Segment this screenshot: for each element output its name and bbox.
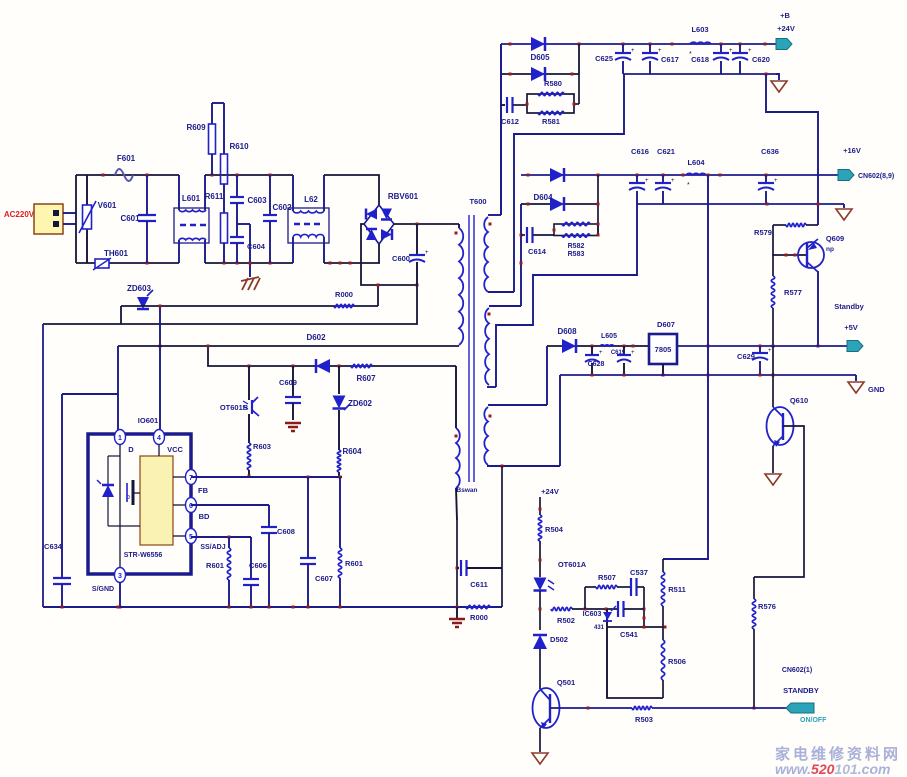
wire S3 bottom riser	[559, 375, 561, 466]
resistor R582	[562, 222, 590, 250]
connector CN602 +16V	[838, 146, 894, 181]
label D604	[533, 193, 553, 202]
svg-text:D604: D604	[533, 193, 553, 202]
label STR-W6556	[124, 552, 163, 559]
svg-text:TH601: TH601	[104, 249, 129, 258]
svg-text:C601: C601	[120, 214, 140, 223]
wire R504 column	[539, 497, 542, 515]
inductor L604	[686, 158, 706, 189]
wire C537 right	[637, 587, 646, 627]
svg-text:R511: R511	[668, 585, 686, 594]
transformer aux winding	[455, 366, 460, 520]
svg-text:C537: C537	[630, 568, 648, 577]
svg-text:R582: R582	[568, 243, 585, 250]
label VCC	[167, 445, 183, 454]
svg-text:+: +	[774, 178, 778, 184]
ground symbol Q610	[765, 474, 781, 485]
bridge rectifier RBV601	[364, 192, 419, 244]
wire +16V rail	[521, 174, 840, 177]
snubber box R582 R583	[553, 223, 600, 237]
svg-text:C625: C625	[595, 54, 613, 63]
IC601 inner zener loop	[108, 456, 140, 526]
capacitor C621	[655, 147, 675, 204]
fuse F601	[115, 154, 136, 181]
resistor R504	[538, 515, 563, 577]
capacitor C607	[300, 477, 333, 607]
label SS/ADJ	[200, 544, 225, 551]
capacitor C606	[243, 537, 267, 607]
svg-text:+: +	[748, 48, 752, 54]
svg-text:C541: C541	[620, 630, 638, 639]
wire snubber rail	[207, 345, 457, 368]
wire S2 bottom return	[496, 204, 637, 387]
svg-text:RBV601: RBV601	[388, 192, 419, 201]
svg-text:+5V: +5V	[844, 323, 858, 332]
svg-text:C603: C603	[247, 196, 267, 205]
wire pin3 to rail	[119, 582, 122, 609]
zener ZD602	[333, 366, 373, 410]
svg-text:AC220V: AC220V	[4, 210, 35, 219]
capacitor C617	[642, 44, 679, 74]
transformer secondary S1	[484, 215, 514, 292]
transformer T600 label	[469, 197, 486, 206]
svg-text:GND: GND	[868, 385, 885, 394]
wire SS	[191, 536, 251, 539]
varistor V601	[79, 175, 117, 263]
svg-text:L601: L601	[182, 194, 201, 203]
pin 7	[173, 470, 197, 485]
label D602	[306, 333, 326, 342]
pin 3	[115, 568, 126, 583]
IC601 box	[88, 434, 191, 574]
svg-text:C600: C600	[392, 254, 410, 263]
svg-text:BD: BD	[199, 512, 210, 521]
wire primary return	[43, 285, 417, 324]
svg-text:CN602(1): CN602(1)	[782, 667, 812, 674]
resistor R507	[596, 573, 617, 589]
wire Q610 emitter	[772, 446, 774, 473]
svg-text:R504: R504	[545, 525, 564, 534]
svg-text:C617: C617	[661, 55, 679, 64]
diode D605 a	[531, 37, 545, 51]
svg-text:1: 1	[118, 435, 122, 442]
resistor R604	[337, 410, 362, 476]
svg-text:R601: R601	[206, 561, 224, 570]
label D605	[530, 53, 550, 62]
svg-text:7805: 7805	[655, 345, 672, 354]
wire to bridge top	[324, 175, 379, 205]
watermark line2	[775, 761, 890, 777]
svg-text:R610: R610	[229, 142, 249, 151]
wire top rail +B	[501, 43, 779, 46]
wire AC left vertical	[75, 175, 77, 263]
connector AC socket	[34, 204, 76, 234]
watermark line1	[775, 745, 901, 763]
inductor L605	[600, 333, 617, 346]
capacitor C601	[120, 175, 156, 263]
wire bridge bottom stub	[378, 244, 380, 263]
optocoupler OT601A	[534, 560, 587, 591]
resistor R580	[538, 79, 564, 96]
connector +5V	[847, 341, 863, 352]
svg-text:C607: C607	[315, 574, 333, 583]
ground symbol GND	[848, 375, 885, 394]
transistor Q609	[798, 234, 844, 272]
svg-text:431: 431	[594, 625, 605, 631]
svg-text:V601: V601	[98, 201, 117, 210]
choke L601	[174, 175, 209, 263]
thermistor TH601	[93, 249, 129, 270]
resistor R506	[661, 627, 686, 698]
IC601 inner zener	[97, 480, 114, 497]
capacitor C634	[44, 394, 71, 607]
label STANDBY	[783, 686, 819, 695]
resistor R577	[771, 255, 802, 348]
svg-text:+24V: +24V	[541, 487, 559, 496]
transistor Q610	[767, 396, 809, 447]
svg-text:C611: C611	[470, 580, 488, 589]
capacitor C611	[457, 560, 502, 589]
label FB	[198, 486, 209, 495]
svg-text:IC603: IC603	[583, 611, 602, 618]
ground symbol +24V	[771, 74, 787, 92]
svg-text:C621: C621	[657, 147, 675, 156]
svg-text:D605: D605	[530, 53, 550, 62]
svg-text:ON/OFF: ON/OFF	[800, 717, 827, 724]
wire R511 feed	[663, 175, 708, 559]
label CN602(1)	[782, 667, 812, 674]
svg-text:R580: R580	[544, 79, 562, 88]
svg-text:D602: D602	[306, 333, 326, 342]
power ground bottom rail	[449, 607, 465, 627]
label +5V	[844, 323, 858, 332]
capacitor C603	[230, 175, 267, 224]
optocoupler OT601B	[220, 366, 259, 443]
wire FB	[191, 476, 342, 479]
wire 16V return rail	[637, 203, 844, 206]
svg-text:R604: R604	[342, 447, 362, 456]
svg-text:b: b	[126, 494, 130, 501]
capacitor C602	[263, 175, 292, 263]
svg-text:L603: L603	[691, 25, 708, 34]
svg-text:R609: R609	[186, 123, 206, 132]
resistor R581	[538, 111, 564, 126]
wire OT601A to R502	[539, 591, 542, 630]
svg-text:www.520101.com: www.520101.com	[775, 761, 890, 777]
resistor R576	[752, 577, 776, 710]
svg-text:FB: FB	[198, 486, 209, 495]
diode D604 a	[550, 168, 564, 182]
IC601 chip STR-W6556	[140, 456, 173, 545]
wire 7805 gnd stem	[662, 364, 665, 377]
svg-text:Q501: Q501	[557, 678, 575, 687]
svg-text:4: 4	[157, 435, 161, 442]
svg-text:*: *	[687, 182, 690, 189]
chassis ground	[241, 277, 260, 290]
svg-text:Q610: Q610	[790, 396, 808, 405]
svg-text:IO601: IO601	[138, 416, 158, 425]
resistor R601	[338, 477, 363, 607]
pin 1	[115, 430, 126, 445]
svg-text:C609: C609	[279, 378, 297, 387]
svg-text:VCC: VCC	[167, 445, 183, 454]
capacitor C610	[392, 224, 429, 285]
wire D604 lower	[521, 175, 600, 235]
svg-text:R581: R581	[542, 117, 560, 126]
wire S2 top riser	[520, 204, 523, 306]
snubber box R580 R581	[526, 74, 580, 113]
label aux winding	[457, 487, 478, 494]
label pin D	[128, 445, 134, 454]
transformer secondary S3	[484, 405, 560, 468]
capacitor C614	[521, 227, 554, 256]
svg-text:R507: R507	[598, 573, 616, 582]
resistor R607	[351, 364, 376, 383]
wire S1 top riser	[500, 44, 502, 215]
wire VCC drop pin4	[159, 305, 162, 430]
svg-text:np: np	[826, 246, 834, 253]
svg-text:R000: R000	[335, 290, 353, 299]
wire IC603 output	[607, 626, 667, 629]
capacitor C625	[595, 44, 635, 74]
svg-text:+B: +B	[780, 11, 790, 20]
resistor R609	[186, 103, 215, 175]
pin 4	[154, 430, 165, 445]
wire to bridge bottom	[324, 262, 380, 265]
svg-text:C616: C616	[631, 147, 649, 156]
svg-text:D502: D502	[550, 635, 568, 644]
transformer secondary S2	[485, 306, 521, 387]
svg-text:D: D	[128, 445, 134, 454]
wire AC bottom	[76, 262, 179, 265]
wire C611 right riser	[501, 466, 503, 607]
resistor R502	[551, 607, 575, 625]
svg-text:C636: C636	[761, 147, 779, 156]
wire Q501 base R503	[550, 707, 632, 710]
inductor L603	[689, 25, 711, 58]
resistor R583	[562, 234, 590, 258]
svg-text:Bswan: Bswan	[457, 487, 478, 494]
wire aux to bottom rail	[456, 520, 459, 607]
resistor R511	[661, 559, 685, 627]
svg-text:+: +	[631, 48, 635, 54]
wire bridge output	[394, 223, 459, 226]
svg-text:+: +	[425, 250, 429, 256]
wire Q610 collector	[772, 346, 774, 407]
label IC601	[138, 416, 158, 425]
svg-text:STR-W6556: STR-W6556	[124, 552, 163, 559]
svg-text:D608: D608	[557, 327, 577, 336]
wire AC top	[76, 174, 179, 177]
svg-text:C629: C629	[737, 352, 755, 361]
transistor Q501	[533, 678, 576, 729]
svg-text:+: +	[645, 178, 649, 184]
wire D605 anode riser	[500, 44, 502, 215]
resistor R611	[205, 184, 228, 263]
svg-text:R503: R503	[635, 715, 653, 724]
svg-text:C608: C608	[277, 527, 295, 536]
diode D608	[557, 327, 577, 353]
diode D502	[533, 635, 568, 649]
wire GND rail	[560, 374, 856, 377]
svg-text:+: +	[599, 350, 603, 356]
svg-text:C606: C606	[249, 561, 267, 570]
capacitor C636	[758, 147, 779, 204]
capacitor C629	[737, 346, 772, 375]
wire Q610 base	[754, 426, 804, 577]
resistor R579	[754, 223, 818, 237]
capacitor C537	[630, 568, 648, 596]
svg-text:D607: D607	[657, 320, 675, 329]
svg-text:+: +	[658, 48, 662, 54]
svg-text:R583: R583	[568, 251, 585, 258]
svg-text:ZD603: ZD603	[127, 284, 152, 293]
wire bottom rail	[43, 606, 502, 609]
resistor R608	[334, 290, 354, 308]
svg-text:S/GND: S/GND	[92, 586, 114, 593]
svg-text:STANDBY: STANDBY	[783, 686, 819, 695]
diode D604 b	[550, 197, 564, 211]
wire top branch	[585, 587, 596, 609]
capacitor C619	[611, 346, 635, 375]
wire D502 to Q501	[539, 649, 541, 689]
svg-text:R601: R601	[345, 559, 363, 568]
IC601 inner mosfet	[126, 480, 140, 505]
svg-text:+: +	[671, 178, 675, 184]
svg-text:R506: R506	[668, 657, 686, 666]
wire R507 to C537	[617, 586, 630, 588]
resistor R600	[466, 605, 490, 622]
wire loop bottom	[607, 608, 663, 698]
label R503	[635, 715, 653, 724]
label AC220V	[4, 210, 35, 219]
svg-text:R000: R000	[470, 613, 488, 622]
capacitor C620	[732, 44, 770, 74]
svg-text:+: +	[631, 350, 635, 356]
svg-text:R611: R611	[205, 192, 224, 201]
svg-text:R579: R579	[754, 228, 772, 237]
diode D605 b	[531, 67, 545, 81]
wire C634 top	[62, 393, 118, 395]
capacitor C612	[501, 97, 527, 126]
wire AC mid bottom	[205, 262, 293, 265]
choke L602	[288, 175, 329, 263]
svg-text:C628: C628	[588, 361, 605, 368]
svg-text:+24V: +24V	[777, 24, 795, 33]
pin 6	[173, 498, 197, 513]
wire S3 top riser	[546, 346, 548, 405]
wire 24V gnd drop	[766, 74, 818, 225]
svg-text:SS/ADJ: SS/ADJ	[200, 544, 225, 551]
svg-text:C634: C634	[44, 542, 63, 551]
svg-text:OT601A: OT601A	[558, 560, 587, 569]
svg-text:+16V: +16V	[843, 146, 861, 155]
connector +B +24V	[776, 11, 795, 50]
diode D602	[316, 359, 330, 373]
ground symbol 16V	[836, 204, 852, 220]
svg-text:R576: R576	[758, 602, 776, 611]
IC601 inner drain line	[119, 443, 121, 569]
svg-text:F601: F601	[117, 154, 136, 163]
pin 5	[173, 529, 197, 544]
svg-text:3: 3	[118, 573, 122, 580]
zener ZD603	[127, 284, 153, 309]
ground symbol Q501	[532, 753, 548, 764]
svg-text:L605: L605	[601, 333, 617, 340]
wire +24V ground rail	[623, 73, 776, 76]
wire +5V rail	[676, 345, 849, 348]
svg-text:C619: C619	[611, 350, 626, 356]
svg-text:CN602(8,9): CN602(8,9)	[858, 173, 894, 180]
label C541	[620, 630, 638, 639]
wire earth stub	[237, 224, 252, 277]
label BD	[199, 512, 210, 521]
svg-text:OT601B: OT601B	[220, 403, 249, 412]
label +24V node	[541, 487, 559, 496]
IC601 pin4 stem	[158, 443, 160, 456]
resistor R602	[206, 537, 231, 607]
capacitor C616	[629, 147, 649, 204]
label Standby	[834, 302, 864, 311]
wire R502 to IC603	[572, 608, 618, 611]
capacitor C609	[279, 366, 301, 420]
resistor R503	[632, 706, 652, 709]
capacitor C618	[691, 44, 733, 74]
svg-text:T600: T600	[469, 197, 486, 206]
capacitor C541 series	[618, 601, 624, 617]
capacitor C608	[261, 505, 295, 607]
wire D602 primary bottom	[118, 346, 459, 430]
connector ON/OFF	[786, 703, 827, 724]
svg-text:R603: R603	[253, 442, 271, 451]
wire R503 to connector	[652, 707, 786, 709]
wire C541 right	[624, 608, 644, 610]
capacitor C628	[585, 346, 604, 375]
svg-text:L62: L62	[304, 195, 318, 204]
svg-text:C612: C612	[501, 117, 519, 126]
wire BD	[191, 504, 269, 506]
wire IC603 cathode drop	[606, 627, 608, 698]
power ground C609	[285, 423, 301, 431]
wire R608 rail	[121, 284, 380, 325]
svg-text:Q609: Q609	[826, 234, 844, 243]
transformer primary winding	[455, 224, 464, 345]
svg-text:L604: L604	[687, 158, 705, 167]
transformer core	[469, 215, 474, 482]
shunt regulator IC603	[583, 606, 616, 631]
regulator 7805 D607	[649, 320, 677, 364]
wire D608 input	[547, 345, 649, 348]
resistor R610	[212, 103, 249, 184]
wire D605 lower	[501, 44, 579, 76]
wire Q501 emitter	[539, 728, 541, 752]
wire left ground drop	[42, 324, 44, 607]
capacitor C604	[230, 224, 266, 263]
svg-text:R502: R502	[557, 616, 575, 625]
wire AC mid top	[205, 174, 293, 177]
svg-text:ZD602: ZD602	[348, 399, 373, 408]
svg-text:C618: C618	[691, 55, 709, 64]
resistor R603	[247, 442, 271, 478]
label S/GND	[92, 586, 114, 593]
wire bridge negative	[361, 224, 419, 287]
wire Q609 base	[773, 225, 807, 257]
svg-text:+: +	[768, 348, 772, 354]
svg-text:R577: R577	[784, 288, 802, 297]
wire S1 bottom return	[514, 74, 624, 292]
wire Q609 collector	[817, 271, 820, 348]
svg-text:C620: C620	[752, 55, 770, 64]
